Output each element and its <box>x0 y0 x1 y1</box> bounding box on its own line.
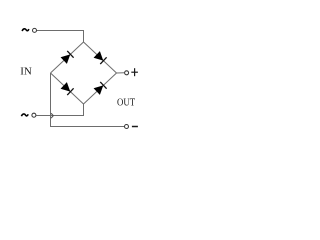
wire bridge edge bottom-left <box>51 73 84 104</box>
label OUT <box>117 97 135 109</box>
label plus <box>131 68 138 76</box>
diode D4 <box>94 82 107 95</box>
tilde AC1 <box>22 29 29 31</box>
diode D3 <box>61 82 74 95</box>
terminal AC1 <box>33 28 37 32</box>
wire plus output <box>117 72 125 74</box>
terminal minus <box>125 125 129 129</box>
wire AC2 bottom <box>36 104 83 116</box>
label minus <box>132 126 138 128</box>
svg-text:OUT: OUT <box>117 97 135 109</box>
terminal AC2 <box>32 113 36 117</box>
diode D1 <box>61 51 74 64</box>
wire bridge edge bottom-right <box>84 73 117 104</box>
wire AC1 top <box>37 31 84 43</box>
diode D2 <box>94 51 107 64</box>
terminal plus <box>125 71 129 75</box>
wire bridge edge top-left <box>51 42 84 73</box>
node crossover hop <box>51 113 53 118</box>
svg-text:IN: IN <box>20 66 32 78</box>
wire bridge edge top-right <box>84 42 117 73</box>
tilde AC2 <box>21 114 28 116</box>
wire minus output <box>51 73 125 127</box>
